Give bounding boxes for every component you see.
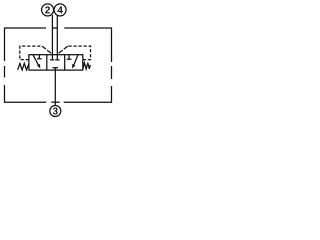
port label 3 (53, 107, 58, 114)
cartridge envelope top edge (left segment) (5, 27, 47, 29)
cartridge envelope right edge (dashed-interrupted) (111, 27, 113, 102)
wire port 2 line (51, 15, 53, 55)
port circle 3 (50, 106, 61, 117)
left position flow arrow 2-to-3 (33, 55, 39, 66)
wire port 3 line (54, 70, 56, 105)
valve envelope (3-position body) (29, 55, 83, 70)
valve position divider left (46, 55, 48, 70)
cartridge envelope top edge (right segment) (64, 27, 111, 29)
right position blocked port 2 (67, 55, 72, 60)
right position flow arrow 4-to-3 (74, 55, 79, 66)
centre position blocked port 3 (52, 68, 58, 70)
pilot line left (dashed) (20, 46, 42, 60)
port label 4 (57, 6, 62, 13)
cartridge envelope top edge (segment between port lines) (52, 27, 57, 29)
cartridge envelope bottom edge (segment at port 3 crossing) (51, 101, 60, 103)
valve position divider right (64, 55, 66, 70)
centre position blocked port 4 (55, 55, 59, 60)
centre position blocked port 2 (50, 55, 54, 60)
cartridge envelope bottom edge (right segment) (64, 101, 112, 103)
port label 2 (45, 6, 50, 13)
left position blocked port 4 (37, 55, 42, 59)
port circle 2 (42, 4, 54, 16)
spring right (83, 63, 90, 69)
cartridge envelope left edge (dashed-interrupted) (4, 27, 6, 102)
port circle 4 (54, 4, 66, 16)
spring left (18, 63, 29, 70)
cartridge envelope bottom edge (left segment) (5, 101, 47, 103)
wire port 4 line (56, 16, 58, 55)
pilot line right (dashed) (68, 46, 91, 60)
